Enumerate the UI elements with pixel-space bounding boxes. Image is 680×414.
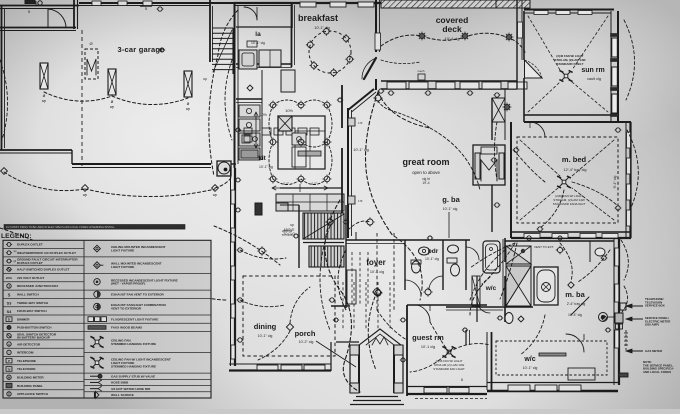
svg-text:4'-0": 4'-0": [311, 182, 317, 186]
svg-text:sun rm: sun rm: [581, 67, 604, 74]
svg-text:12'-4" tray clg: 12'-4" tray clg: [564, 168, 587, 172]
svg-text:breakfast: breakfast: [298, 13, 338, 23]
svg-text:LIGHT FIXTURE: LIGHT FIXTURE: [111, 265, 134, 269]
svg-text:porch: porch: [295, 329, 316, 338]
svg-text:wp: wp: [42, 99, 46, 103]
svg-text:BUILDING PANEL: BUILDING PANEL: [17, 384, 43, 388]
svg-text:FOUR-WAY SWITCH: FOUR-WAY SWITCH: [17, 309, 47, 313]
svg-text:ø: ø: [43, 93, 46, 98]
svg-text:BUILDING METER: BUILDING METER: [17, 375, 44, 379]
svg-text:10'-4" clg: 10'-4" clg: [568, 313, 582, 317]
svg-text:vault clg: vault clg: [587, 77, 601, 81]
svg-text:179: 179: [358, 121, 363, 125]
svg-text:APPLIANCE SWITCH: APPLIANCE SWITCH: [17, 392, 49, 396]
svg-text:4'-0": 4'-0": [283, 182, 289, 186]
svg-text:DUPLEX OUTLET: DUPLEX OUTLET: [17, 243, 43, 247]
svg-text:10½: 10½: [259, 112, 267, 117]
svg-text:3/4 HOT WATER HOSE BIB: 3/4 HOT WATER HOSE BIB: [111, 387, 151, 391]
svg-text:1/2 CONST. DWGS TO BE USED W/: 1/2 CONST. DWGS TO BE USED W/ ELEC SPECS…: [6, 226, 115, 229]
svg-text:LEGEND:: LEGEND:: [1, 233, 32, 240]
svg-text:g. ba: g. ba: [442, 195, 460, 204]
svg-text:HOSE BIBB: HOSE BIBB: [111, 381, 129, 385]
svg-text:DIMMER: DIMMER: [17, 317, 30, 321]
svg-text:10'-1" clg: 10'-1" clg: [259, 165, 273, 169]
svg-text:wp: wp: [213, 193, 217, 197]
svg-text:dining: dining: [254, 322, 277, 331]
svg-text:STANDARD FAN/LIGHT: STANDARD FAN/LIGHT: [553, 202, 586, 206]
svg-text:INTERCOM: INTERCOM: [17, 351, 34, 355]
svg-text:10'-1" clg: 10'-1" clg: [353, 148, 369, 152]
svg-text:S: S: [8, 292, 11, 297]
svg-text:up: up: [290, 223, 294, 227]
svg-text:SERVICE BOX: SERVICE BOX: [645, 304, 665, 308]
svg-text:AND LOCAL CODES: AND LOCAL CODES: [643, 370, 671, 374]
svg-text:9'-4" clg: 9'-4" clg: [613, 176, 617, 189]
svg-text:EXHAUST FAN VENT TO EXTERIOR: EXHAUST FAN VENT TO EXTERIOR: [111, 292, 164, 296]
svg-text:ø: ø: [187, 101, 190, 106]
svg-text:w/c: w/c: [485, 285, 497, 292]
svg-text:TELEPHONE: TELEPHONE: [17, 359, 36, 363]
svg-text:foyer: foyer: [366, 258, 386, 267]
svg-text:RECESSED JUNCTION BOX: RECESSED JUNCTION BOX: [17, 284, 59, 288]
svg-text:TELEVISION: TELEVISION: [17, 367, 36, 371]
svg-text:m. ba: m. ba: [565, 290, 585, 299]
svg-text:A: A: [8, 342, 10, 346]
svg-text:LIGHT FIXTURE: LIGHT FIXTURE: [111, 249, 134, 253]
svg-text:VENT TO EXT.: VENT TO EXT.: [534, 245, 554, 249]
svg-text:wp: wp: [186, 107, 190, 111]
svg-text:TO CLG: TO CLG: [281, 233, 293, 237]
svg-text:wp: wp: [83, 193, 87, 197]
svg-text:VENT TO EXTERIOR: VENT TO EXTERIOR: [111, 307, 142, 311]
svg-text:m. bed: m. bed: [562, 155, 587, 164]
svg-text:TV: TV: [7, 368, 10, 371]
svg-text:10'-2" clg: 10'-2" clg: [299, 340, 314, 344]
svg-text:DUPLEX OUTLET: DUPLEX OUTLET: [17, 261, 43, 265]
svg-text:10'-1" clg: 10'-1" clg: [314, 26, 330, 30]
svg-text:GAS SUPPLY STUB W/ VALVE: GAS SUPPLY STUB W/ VALVE: [111, 374, 155, 378]
svg-text:kit: kit: [258, 155, 266, 162]
svg-text:10'-1" clg: 10'-1" clg: [443, 207, 458, 211]
svg-text:THREE-WAY SWITCH: THREE-WAY SWITCH: [17, 301, 49, 305]
svg-text:P: P: [8, 359, 10, 363]
svg-text:open to above: open to above: [412, 170, 440, 175]
svg-text:10½: 10½: [285, 108, 293, 113]
svg-text:W/ BATTERY BACKUP: W/ BATTERY BACKUP: [17, 336, 50, 340]
svg-text:great room: great room: [402, 157, 449, 167]
svg-text:STEMMED HANGING FIXTURE: STEMMED HANGING FIXTURE: [111, 342, 156, 346]
svg-text:WALL SWITCH: WALL SWITCH: [17, 292, 40, 296]
svg-text:wp: wp: [110, 105, 114, 109]
svg-text:FLUORESCENT LIGHT FIXTURE: FLUORESCENT LIGHT FIXTURE: [111, 317, 158, 321]
svg-text:10'-1" clg: 10'-1" clg: [251, 41, 265, 45]
svg-text:STANDARD FAN/LT: STANDARD FAN/LT: [557, 62, 584, 66]
svg-text:la: la: [255, 31, 261, 38]
svg-text:GAS METER: GAS METER: [645, 349, 663, 353]
svg-text:mech: mech: [418, 69, 425, 73]
svg-text:Ø: Ø: [89, 41, 92, 46]
svg-text:AIR DETECTOR: AIR DETECTOR: [17, 342, 41, 346]
svg-text:w/c: w/c: [523, 356, 535, 363]
svg-text:10'-1" clg: 10'-1" clg: [523, 366, 538, 370]
svg-text:WALL SCONCE: WALL SCONCE: [111, 393, 134, 397]
svg-text:3-car garage: 3-car garage: [117, 45, 164, 54]
svg-text:6: 6: [461, 378, 463, 382]
svg-text:10'-1" clg: 10'-1" clg: [425, 257, 439, 261]
svg-text:10'-4 clg: 10'-4 clg: [445, 36, 460, 41]
svg-text:S3: S3: [7, 302, 12, 306]
svg-text:up: up: [203, 77, 207, 81]
svg-text:FAUX WOOD BEAMS: FAUX WOOD BEAMS: [111, 326, 142, 330]
svg-text:220 VOLT OUTLET: 220 VOLT OUTLET: [17, 276, 44, 280]
svg-text:PUSHBUTTON SWITCH: PUSHBUTTON SWITCH: [17, 326, 52, 330]
svg-text:J: J: [8, 284, 10, 288]
svg-text:ø: ø: [111, 99, 114, 104]
svg-text:10'-1 clg: 10'-1 clg: [421, 345, 435, 349]
svg-text:(WET - VAPOR PROOF): (WET - VAPOR PROOF): [111, 282, 145, 286]
svg-text:HALF-SWITCHED DUPLEX OUTLET: HALF-SWITCHED DUPLEX OUTLET: [17, 268, 70, 272]
svg-text:10'-1" clg: 10'-1" clg: [258, 334, 273, 338]
svg-text:STEMMED HANGING FIXTURE: STEMMED HANGING FIXTURE: [111, 364, 156, 368]
svg-text:179: 179: [358, 199, 363, 203]
svg-text:pdr: pdr: [428, 248, 439, 255]
svg-text:deck: deck: [442, 24, 462, 34]
svg-text:(200 AMP): (200 AMP): [645, 323, 659, 327]
svg-text:19'-4: 19'-4: [423, 181, 430, 185]
svg-text:WEATHERPROOF GFI DUPLEX OUTLET: WEATHERPROOF GFI DUPLEX OUTLET: [17, 251, 76, 255]
svg-text:STANDARD FAN LIGHT: STANDARD FAN LIGHT: [433, 367, 465, 371]
svg-text:220v: 220v: [6, 276, 13, 280]
